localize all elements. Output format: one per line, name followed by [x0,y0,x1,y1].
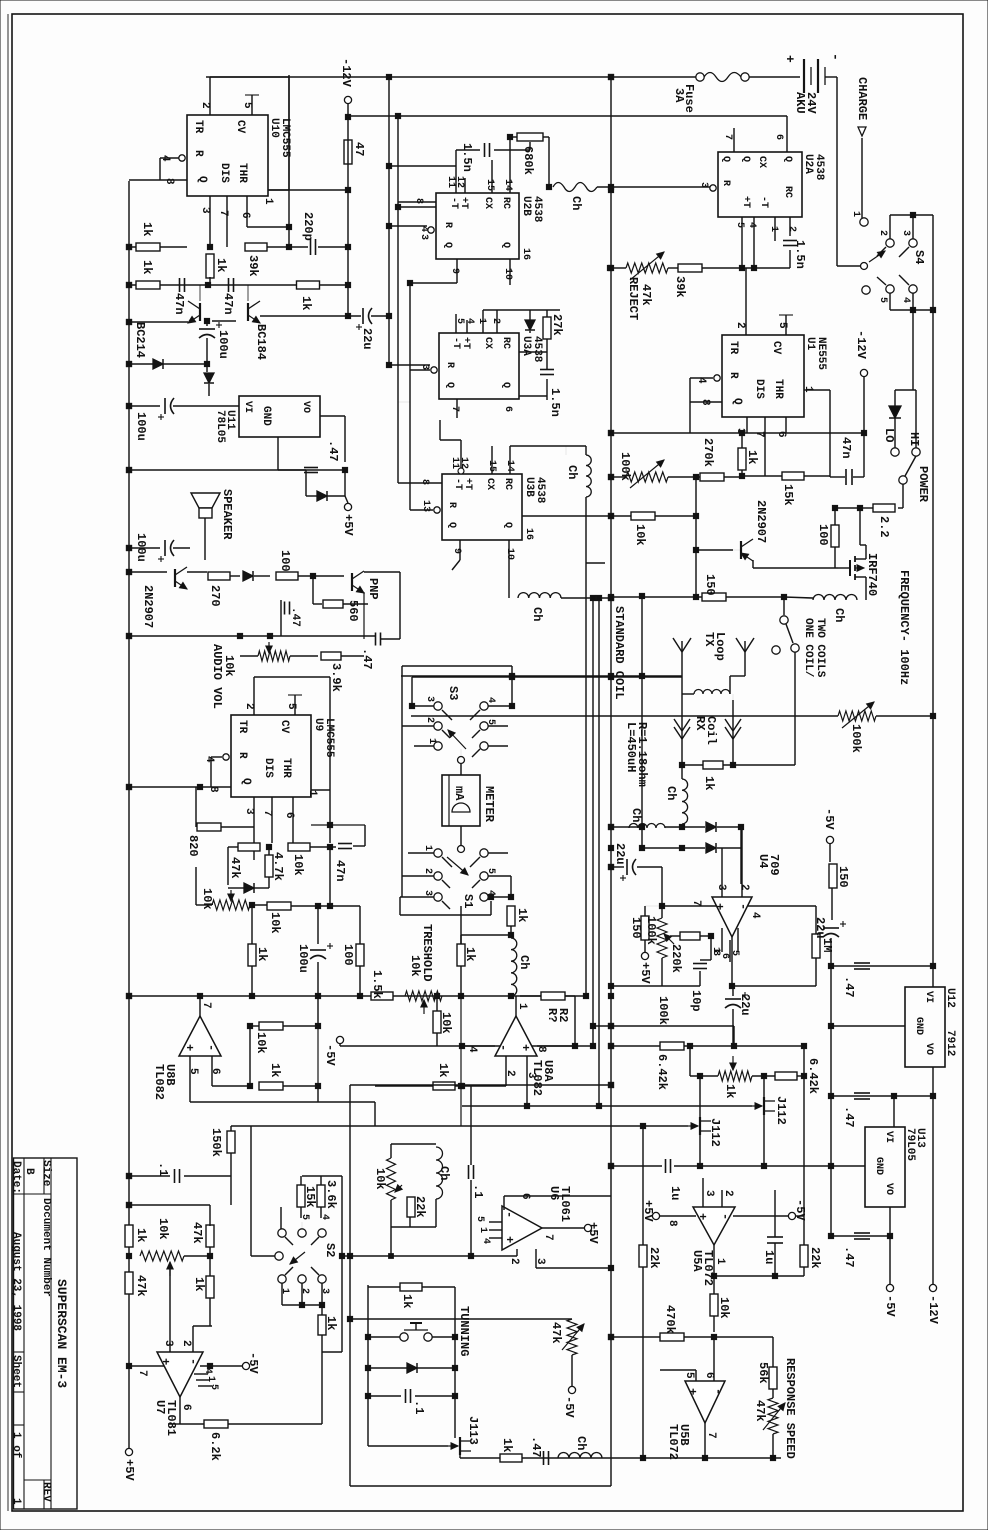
RX arrows [681,694,683,765]
svg-text:1: 1 [426,738,437,744]
svg-text:CV: CV [770,341,782,355]
svg-text:B: B [23,1168,35,1175]
svg-text:10k: 10k [373,1168,387,1190]
svg-text:THR: THR [236,163,248,183]
svg-text:7: 7 [200,1002,212,1009]
IC U3B 4538 [442,474,522,540]
wire irf down [865,577,867,600]
svg-text:27k: 27k [550,314,564,336]
resistor 47k u9 [238,843,260,851]
S3 pole to meter [458,757,465,764]
svg-text:8: 8 [163,178,175,185]
wire vertical x=330 down [329,847,331,906]
svg-text:5: 5 [241,102,253,109]
pot 10k u7 [140,1251,184,1261]
svg-text:1: 1 [714,1258,726,1265]
wire U9 row y=787 [129,786,231,788]
IC U9 LMC555 [231,715,311,797]
switch S1 [434,849,442,857]
capacitor .47 r3 [854,1232,870,1234]
terminal -5V top right [826,836,833,843]
resistor 1k s1 [507,906,515,926]
svg-text:-T: -T [448,197,459,209]
wire rail y=1276 [714,1275,804,1277]
svg-text:S1: S1 [461,894,475,908]
svg-text:NE555: NE555 [815,337,827,370]
svg-text:24V: 24V [804,92,818,114]
wire to irf [752,560,754,568]
svg-text:5: 5 [485,868,496,874]
svg-text:3: 3 [319,1288,330,1294]
resistor 6.2k [204,1420,228,1428]
svg-text:10k: 10k [717,1297,731,1319]
svg-text:1: 1 [710,947,721,953]
svg-text:3.6k: 3.6k [324,1180,338,1209]
svg-text:16: 16 [520,248,531,260]
wire row y=166 [389,165,456,167]
svg-text:TWO COILS: TWO COILS [814,618,826,678]
U5B top wiring [695,1370,697,1381]
svg-text:22k: 22k [647,1247,661,1269]
resistor 1k btm [500,1454,522,1462]
svg-text:TL072: TL072 [701,1250,715,1286]
svg-text:U9: U9 [312,718,324,731]
svg-text:-: - [502,1211,516,1218]
svg-text:47k: 47k [549,1322,563,1344]
U5B output [704,1423,706,1458]
capacitor .1 fb [468,1165,470,1179]
resistor 3.6k [317,1185,325,1207]
S4 lower contacts [862,286,870,294]
svg-text:1u: 1u [762,1250,776,1264]
capacitor .1 tun [405,1389,407,1403]
svg-text:-5V: -5V [793,1199,807,1221]
svg-text:10k: 10k [408,955,422,977]
svg-text:1: 1 [422,845,433,851]
capacitor 1.5n u2a [783,240,797,242]
svg-text:1.5k: 1.5k [370,970,384,999]
capacitor 1.5n u2b [484,143,486,157]
wire row y=116 right [348,115,787,117]
inductor Ch btm [558,1453,602,1459]
terminal -5V u7 [200,1365,242,1367]
capacitor .47 b [375,633,377,646]
wire row y=283 [410,282,457,284]
svg-text:-5V: -5V [562,1396,576,1418]
wire rail y=966 [831,965,933,967]
svg-text:-: - [736,903,750,910]
svg-text:5: 5 [474,1216,485,1222]
svg-text:2N2907: 2N2907 [754,500,768,543]
svg-text:3: 3 [715,884,727,891]
svg-text:8: 8 [666,1220,678,1227]
wire rail y=765 [682,764,795,766]
svg-text:1: 1 [10,1498,22,1505]
svg-text:Q: Q [196,176,208,183]
transistor J112 b [699,1117,701,1135]
terminal -12V bottom [929,1284,936,1291]
terminal +5V [344,503,351,510]
resistor 1k v u8 [248,944,256,966]
S1 stubs [408,852,434,854]
wire u9 pin1 down [329,790,331,825]
pot 10k fb [387,1158,396,1200]
resistor 1k vertical pin3 [206,254,214,278]
svg-text:U2B: U2B [520,196,532,216]
terminal -5V bottom right [889,1236,891,1284]
svg-text:1 of: 1 of [10,1432,22,1459]
resistor 1k u1 [738,448,746,470]
svg-text:Q: Q [442,242,453,248]
svg-text:J113: J113 [466,1416,480,1445]
svg-text:1: 1 [262,198,274,205]
resistor 47k v2 [206,1225,214,1247]
svg-text:7: 7 [705,1432,717,1439]
svg-text:1k: 1k [702,776,716,790]
U3A wiring [455,314,457,333]
wire vertical x=642 [641,596,643,848]
svg-text:1: 1 [768,226,779,232]
svg-text:SUPERSCAN EM-3: SUPERSCAN EM-3 [54,1279,69,1388]
U4 output [731,937,733,986]
LED LO [889,406,901,418]
wire U2A top [733,128,735,152]
svg-text:220p: 220p [301,212,315,241]
S3 contact slashes [442,710,452,720]
svg-text:1k: 1k [400,1294,414,1308]
svg-text:4: 4 [480,1238,491,1244]
svg-text:7: 7 [690,900,702,907]
svg-text:.47: .47 [360,648,374,670]
svg-text:S2: S2 [323,1243,337,1257]
svg-text:7: 7 [722,134,733,140]
transistor 2N2907 power [740,541,742,559]
svg-text:78L05: 78L05 [214,410,226,443]
antenna TX 2 [744,652,746,676]
pot 100k u3b [626,472,668,482]
op-amp U5A TL072 [693,1207,735,1245]
wire long vertical x=593 [592,598,594,1046]
svg-text:150k: 150k [209,1128,223,1157]
U5A right pin -5V [733,1215,788,1217]
resistor 1k a [129,246,187,248]
resistor 3.9k [321,652,341,660]
resistor 27k [543,317,551,339]
transistor 2N2907 audio [174,569,176,587]
resistor 1k v right [457,944,465,966]
U4 pin7 row [662,905,716,907]
U4 pin1 stub [710,936,712,953]
wire left main bus [128,181,130,1452]
inductor Ch fb [436,1147,443,1199]
svg-text:AUDIO VOL: AUDIO VOL [210,644,224,709]
svg-text:7: 7 [261,810,273,817]
svg-text:.1: .1 [156,1162,170,1176]
svg-text:TUNNING: TUNNING [457,1306,471,1356]
resistor 1k rx [703,761,723,769]
U5A left pin +5V [660,1215,696,1217]
svg-text:39k: 39k [246,255,260,277]
svg-text:RC: RC [782,186,793,198]
resistor 470k [660,1333,684,1341]
svg-text:Size: Size [40,1160,52,1187]
svg-text:CX: CX [484,478,495,490]
svg-text:1.5n: 1.5n [548,388,562,417]
svg-text:680k: 680k [521,146,535,175]
diode d1 [153,359,163,369]
svg-text:.1: .1 [412,1400,426,1414]
wire row 597 to coil [783,597,785,615]
resistor 1k b [136,281,160,289]
svg-text:PNP: PNP [366,578,380,600]
op-amp U7 TL081 [157,1352,203,1397]
svg-text:1k: 1k [436,1063,450,1077]
svg-text:mA: mA [452,786,466,801]
svg-text:79L05: 79L05 [904,1128,916,1161]
antenna TX 1 [681,652,683,676]
U7 right pins [194,1373,208,1375]
svg-text:Ch: Ch [530,607,544,621]
svg-text:1M: 1M [820,938,834,952]
inductor Ch u3b vertical [565,446,567,455]
svg-text:GND: GND [260,406,272,426]
svg-text:2: 2 [786,226,797,232]
svg-text:5: 5 [187,1068,199,1075]
resistor 1k c [297,281,320,289]
svg-text:J112: J112 [774,1096,788,1125]
wire x=804 down [803,1046,805,1216]
pot REJECT 47k [626,263,668,273]
diode u3a [525,320,535,330]
S3 stubs [412,705,434,707]
resistor 220k [680,932,700,940]
wire row y=285 [129,284,348,286]
svg-text:3: 3 [424,696,435,702]
svg-text:47k: 47k [753,1400,767,1422]
S4 wiring [889,215,891,239]
U6 left pins [489,1221,502,1223]
U1 top wiring [745,268,747,335]
svg-text:-: - [718,1213,732,1220]
svg-text:Q: Q [782,156,793,162]
svg-text:.1: .1 [471,1184,485,1198]
svg-text:10k: 10k [156,1218,170,1240]
svg-text:VI: VI [923,991,934,1003]
wire S3 left verticals [401,666,403,897]
transistor J112 a [763,1097,765,1115]
op-amp U8A TL082 [515,996,517,1016]
svg-text:11: 11 [445,176,456,188]
wire bus x=348 [347,104,349,315]
wire rows u8a [462,1105,611,1107]
wire rail y=1236 [831,1235,890,1237]
svg-text:8: 8 [413,198,424,204]
svg-text:3: 3 [199,207,211,214]
svg-text:560: 560 [346,600,360,622]
svg-text:August 23, 1998: August 23, 1998 [10,1232,22,1331]
resistor 100 [276,572,298,580]
svg-text:DIS: DIS [218,163,230,183]
wire U2B left [398,201,436,203]
svg-text:100: 100 [816,524,830,546]
wire row y=516 Q16 [522,515,631,517]
resistor 6.42k b [775,1072,797,1080]
svg-text:100k: 100k [618,452,632,481]
svg-text:S3: S3 [446,686,460,700]
svg-text:1: 1 [205,1376,216,1382]
op-amp U8B TL082 [199,996,201,1016]
svg-text:1: 1 [306,790,318,797]
svg-text:.47: .47 [842,1106,856,1128]
svg-text:.47: .47 [326,440,340,462]
svg-text:Q: Q [500,242,511,248]
svg-text:10k: 10k [200,888,214,910]
svg-text:2: 2 [734,322,746,329]
resistor 22k left [639,1245,647,1267]
svg-text:56k: 56k [756,1362,770,1384]
svg-text:R: R [236,752,248,759]
wire u5b [713,1337,715,1360]
capacitor 47n b [228,278,230,292]
resistor 150k [227,1131,235,1153]
svg-text:7: 7 [136,1370,148,1377]
svg-text:14: 14 [502,179,513,191]
svg-text:-T: -T [452,478,463,490]
op-amp U4 709 [741,827,743,897]
svg-text:ONE COIL/: ONE COIL/ [802,618,814,678]
svg-text:1: 1 [477,1227,488,1233]
resistor 560 [312,576,314,604]
svg-text:Q: Q [500,382,511,388]
svg-text:47n: 47n [221,293,235,315]
wire U2B top pins [455,172,457,193]
svg-text:Q: Q [240,778,252,785]
wire row y=827 [611,826,642,828]
U4 bottom stubs [721,928,723,952]
svg-text:RC: RC [500,337,511,349]
svg-text:4538: 4538 [813,154,825,181]
U3B Q pin 10 to coil [508,540,510,598]
U12 wiring [932,966,934,987]
svg-text:4: 4 [749,912,761,919]
svg-text:IRF740: IRF740 [865,553,879,596]
svg-text:100k: 100k [644,916,658,945]
wire U10 left pins [160,157,179,159]
svg-text:BC214: BC214 [133,322,147,358]
resistor 10k row [267,902,291,910]
resistor 150 pwr [702,593,726,601]
svg-text:-5V: -5V [883,1295,897,1317]
svg-text:VO: VO [883,1183,894,1195]
svg-text:R: R [446,502,457,508]
svg-text:4: 4 [319,1214,330,1220]
svg-text:TR: TR [192,120,204,134]
diode u9 [244,883,254,893]
resistor 1k u8b [259,1082,283,1090]
wire row y=226 [389,225,427,227]
svg-text:RC: RC [500,197,511,209]
U10 R pin bubble [179,155,185,161]
svg-text:470k: 470k [663,1305,677,1334]
svg-text:Q: Q [740,156,751,162]
capacitor 22u u4b [725,998,741,1000]
resistor 10k v threshold [433,1011,441,1033]
svg-text:4: 4 [746,222,757,228]
diode d2 [204,373,214,383]
IC U2A 4538 [718,152,802,217]
svg-text:1k: 1k [324,1316,338,1330]
svg-text:100: 100 [278,550,292,572]
resistor 39k reject [678,264,702,272]
fuse 3A [696,73,704,81]
title block [14,1158,78,1509]
capacitor 100u b [164,398,166,414]
U9 R bubble [223,754,229,760]
svg-text:.47: .47 [289,607,301,627]
svg-text:6.42k: 6.42k [655,1054,669,1090]
svg-text:47n: 47n [839,437,853,459]
capacitor .47 btm [543,1451,545,1465]
U3B R bubble [434,507,440,513]
svg-text:820: 820 [186,835,200,857]
svg-text:270: 270 [208,585,222,607]
speaker [191,493,220,508]
svg-text:Ch: Ch [629,808,643,822]
wire row y=1046 [340,1045,593,1047]
resistor 820 [195,787,197,827]
resistor 47 [344,140,352,164]
svg-text:1k: 1k [299,296,313,310]
svg-text:.47: .47 [529,1436,543,1458]
svg-text:Q: Q [720,156,731,162]
svg-text:100u: 100u [134,412,148,441]
svg-text:4: 4 [485,697,496,703]
wire row y=433 [611,432,864,434]
svg-text:TL081: TL081 [164,1400,178,1436]
svg-text:6.42k: 6.42k [806,1058,820,1094]
wire U11 out [320,415,345,417]
svg-text:4538: 4538 [531,196,543,223]
svg-text:CV: CV [234,120,246,134]
svg-text:THR: THR [772,379,784,399]
diode tun [407,1363,417,1373]
capacitor 22u right2 [823,927,839,929]
meter to S1 [460,826,462,845]
inductor Ch u2b [553,183,597,192]
svg-text:-12V: -12V [339,58,353,88]
resistor 39k [245,243,267,251]
pot 100k freq [411,715,838,717]
svg-text:5: 5 [877,297,888,303]
wire audio row y=572 [129,571,167,573]
svg-text:STANDARD COIL: STANDARD COIL [612,606,626,700]
battery AKU 24V [749,76,800,78]
wire row y=1026 right [593,1025,734,1027]
U6 inputs wiring [501,1212,503,1214]
wire row y=207 [398,206,436,208]
svg-text:Q: Q [444,382,455,388]
IC U3A 4538 [439,333,519,399]
svg-text:2: 2 [877,230,888,236]
S2 pole [250,1126,252,1256]
svg-text:1k: 1k [723,1084,737,1098]
svg-text:100u: 100u [296,944,310,973]
svg-text:CX: CX [482,197,493,209]
wire mid vertical bus x=611 [610,75,612,1486]
wire x=318 to row [317,996,319,1026]
transistor BC184 [247,303,249,321]
wire row y=364 [129,363,207,365]
